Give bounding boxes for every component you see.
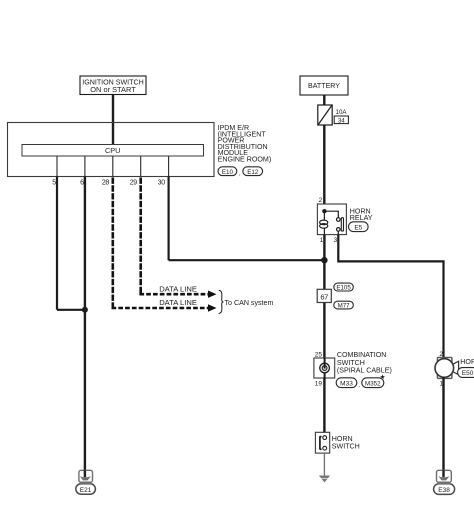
svg-text:M77: M77 xyxy=(338,303,351,310)
connector E5 xyxy=(349,222,369,232)
connector E12 xyxy=(243,167,263,176)
wire horn switch to ground xyxy=(323,453,325,476)
connector E105 xyxy=(334,283,354,292)
brace xyxy=(219,290,224,313)
wire pin 5 horizontal to junction xyxy=(57,309,85,311)
IPDM E/R label text xyxy=(218,124,272,164)
horn switch contacts xyxy=(323,436,327,450)
svg-text:E10: E10 xyxy=(222,169,234,176)
svg-text:ON or START: ON or START xyxy=(90,86,136,94)
svg-text:E12: E12 xyxy=(247,169,259,176)
horn switch box xyxy=(315,432,329,453)
horn relay box xyxy=(317,204,346,235)
svg-text:CPU: CPU xyxy=(105,146,120,155)
svg-text:28: 28 xyxy=(102,179,110,186)
dashed wire pin 28 (CAN) xyxy=(112,178,115,309)
fuse 10A xyxy=(318,105,332,125)
svg-text:34: 34 xyxy=(338,117,345,124)
svg-text:30: 30 xyxy=(158,179,166,186)
svg-text:M352: M352 xyxy=(365,380,381,387)
wire CPU stub pin 5 xyxy=(56,156,58,177)
svg-text:E50: E50 xyxy=(462,370,474,377)
relay contact blade xyxy=(341,218,343,231)
svg-text:E5: E5 xyxy=(354,224,362,231)
arrow head upper data line xyxy=(208,291,217,298)
relay coil xyxy=(320,211,328,235)
main junction dot xyxy=(321,257,327,263)
svg-text:3: 3 xyxy=(334,237,338,244)
wire pin 5 down xyxy=(56,177,58,310)
svg-text:To CAN system: To CAN system xyxy=(225,299,274,307)
CPU box xyxy=(22,145,204,157)
label COMBINATION SWITCH (SPIRAL CABLE) xyxy=(337,351,392,374)
svg-text:2: 2 xyxy=(319,197,323,204)
connector M77 xyxy=(334,301,354,310)
ignition switch box xyxy=(80,76,146,95)
connector E50 (cut at edge) xyxy=(458,368,474,378)
wire into spiral center xyxy=(324,358,326,369)
svg-text:M33: M33 xyxy=(340,380,353,387)
wire fuse to relay xyxy=(323,125,325,211)
arrow head lower data line xyxy=(208,304,217,311)
svg-text:29: 29 xyxy=(130,179,138,186)
spiral cable symbol xyxy=(320,363,330,373)
svg-text:DATA LINE: DATA LINE xyxy=(159,298,197,307)
svg-text:DATA LINE: DATA LINE xyxy=(159,284,197,293)
svg-text:RELAY: RELAY xyxy=(350,214,373,222)
ground symbol xyxy=(319,476,330,483)
IPDM E/R box xyxy=(8,123,215,177)
label HORN RELAY xyxy=(350,208,373,223)
combination switch box xyxy=(314,358,335,378)
connector E10 xyxy=(218,167,237,176)
svg-text:BATTERY: BATTERY xyxy=(308,82,340,90)
svg-text:67: 67 xyxy=(320,292,328,301)
svg-text:.: . xyxy=(239,170,241,178)
wire pin 30 down xyxy=(168,177,170,261)
svg-text:6: 6 xyxy=(80,179,84,186)
connector M352 xyxy=(362,378,384,388)
wire combination switch to horn switch xyxy=(323,378,325,432)
horn (right) xyxy=(435,357,459,378)
svg-text:E105: E105 xyxy=(336,285,351,292)
svg-text:10A: 10A xyxy=(336,109,348,116)
wire relay pin3 right branch xyxy=(338,235,443,359)
svg-text:ENGINE ROOM): ENGINE ROOM) xyxy=(218,156,272,164)
svg-text:19: 19 xyxy=(315,380,323,387)
connector symbol E38 xyxy=(434,470,455,494)
wire out of spiral xyxy=(324,373,326,378)
wire CPU stub pin 29 xyxy=(140,156,142,177)
connector symbol E21 xyxy=(76,470,96,494)
wire pin 30 horizontal to junction xyxy=(169,259,325,261)
wire pin 6 down to E21 xyxy=(84,177,86,478)
wire horn to E38 xyxy=(442,377,444,477)
wire CPU stub pin 30 xyxy=(168,156,170,177)
junction dot xyxy=(82,307,88,313)
connector pin box 67 xyxy=(317,289,331,302)
wire CPU stub pin 6 xyxy=(84,156,86,177)
dashed wire pin 29 (CAN) xyxy=(139,178,142,296)
connector M33 xyxy=(336,378,357,388)
battery box xyxy=(300,76,348,95)
fuse number box 34 xyxy=(334,116,348,124)
wire ignition switch to CPU xyxy=(112,95,114,146)
wire junction down through 67 xyxy=(323,260,325,358)
svg-text:.: . xyxy=(358,381,360,389)
wire battery to fuse xyxy=(323,95,325,105)
svg-text:E38: E38 xyxy=(438,487,450,494)
horn switch blade xyxy=(320,436,322,451)
relay contact branch xyxy=(327,211,341,234)
svg-text:SWITCH: SWITCH xyxy=(332,443,360,451)
svg-text:E21: E21 xyxy=(80,487,92,494)
wire CPU stub pin 28 xyxy=(112,156,114,177)
label HORN SWITCH xyxy=(332,435,360,451)
svg-text:5: 5 xyxy=(52,179,56,186)
relay internal node dot xyxy=(322,209,326,213)
wire relay pin1 to junction xyxy=(323,235,325,261)
svg-text:HORN: HORN xyxy=(460,358,474,366)
